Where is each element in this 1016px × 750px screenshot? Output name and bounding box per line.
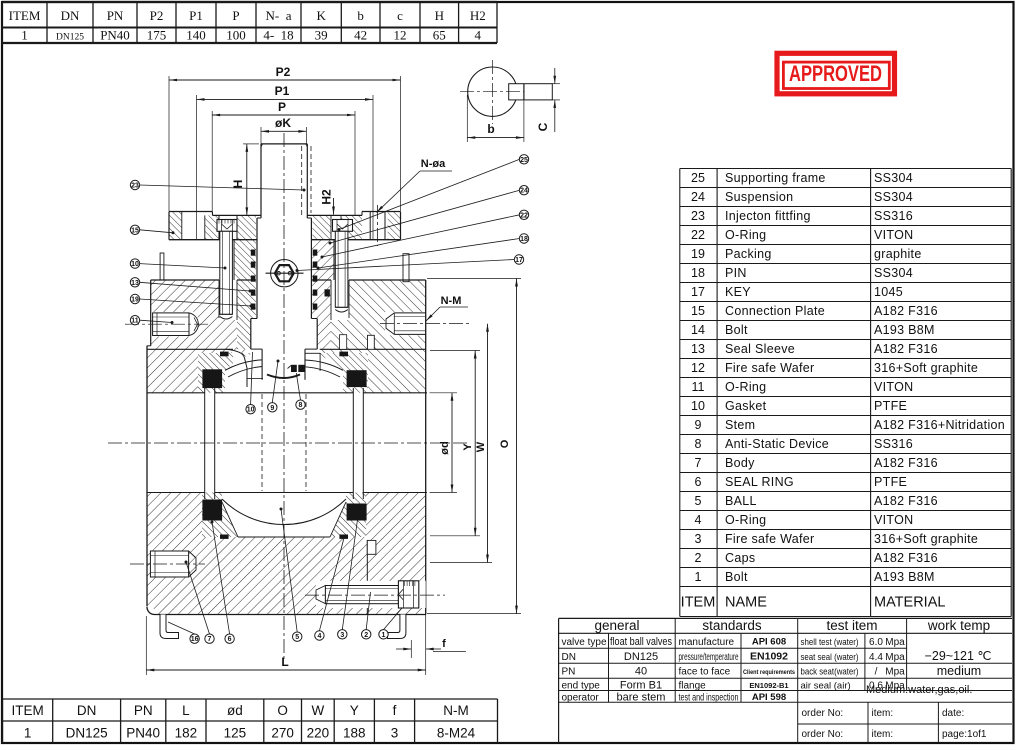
svg-text:Fire safe Wafer: Fire safe Wafer (725, 532, 814, 546)
svg-text:Gasket: Gasket (725, 399, 767, 413)
svg-text:4.4: 4.4 (869, 652, 883, 663)
svg-text:13: 13 (691, 342, 705, 356)
svg-text:air seal (air): air seal (air) (801, 680, 851, 691)
svg-text:140: 140 (186, 28, 206, 43)
svg-text:316+Soft graphite: 316+Soft graphite (874, 532, 978, 546)
svg-text:175: 175 (147, 28, 167, 43)
svg-text:Mpa: Mpa (885, 667, 905, 678)
svg-text:P1: P1 (189, 8, 203, 23)
svg-text:5: 5 (695, 494, 702, 508)
svg-text:MATERIAL: MATERIAL (874, 595, 945, 611)
svg-text:shell test (water): shell test (water) (801, 637, 859, 648)
svg-text:APPROVED: APPROVED (789, 61, 882, 86)
svg-text:Fire safe Wafer: Fire safe Wafer (725, 361, 814, 375)
svg-text:Caps: Caps (725, 551, 755, 565)
svg-text:DN: DN (61, 8, 80, 23)
svg-text:2: 2 (364, 632, 368, 639)
svg-text:100: 100 (226, 28, 246, 43)
svg-text:3: 3 (391, 726, 399, 741)
svg-text:item:: item: (872, 708, 894, 719)
svg-text:22: 22 (520, 212, 528, 219)
svg-text:seat seal (water): seat seal (water) (801, 652, 859, 663)
svg-text:1045: 1045 (874, 285, 903, 299)
svg-text:O: O (277, 703, 288, 718)
svg-text:10: 10 (131, 261, 139, 268)
svg-text:3: 3 (340, 632, 344, 639)
svg-text:medium: medium (937, 664, 981, 678)
svg-text:order No:: order No: (802, 708, 844, 719)
svg-text:W: W (311, 703, 324, 718)
svg-text:ITEM: ITEM (9, 8, 41, 23)
svg-text:A182 F316: A182 F316 (874, 551, 938, 565)
svg-text:−29~121 ℃: −29~121 ℃ (925, 649, 992, 663)
svg-text:N- a: N- a (266, 8, 292, 23)
svg-text:PN40: PN40 (100, 28, 130, 43)
svg-text:SS316: SS316 (874, 209, 913, 223)
svg-text:N-øa: N-øa (421, 158, 446, 170)
svg-text:11: 11 (692, 380, 705, 394)
svg-text:O-Ring: O-Ring (725, 228, 766, 242)
svg-text:Bolt: Bolt (725, 570, 748, 584)
svg-text:270: 270 (271, 726, 294, 741)
svg-text:6: 6 (228, 636, 232, 643)
svg-text:16: 16 (191, 636, 199, 643)
svg-text:c: c (397, 8, 403, 23)
svg-text:8: 8 (299, 402, 303, 409)
svg-text:4- 18: 4- 18 (263, 28, 293, 43)
svg-text:API 608: API 608 (752, 636, 786, 647)
svg-text:flange: flange (679, 680, 707, 691)
svg-text:Stem: Stem (725, 418, 755, 432)
svg-text:4: 4 (475, 28, 482, 43)
svg-text:A182 F316: A182 F316 (874, 494, 938, 508)
svg-text:BALL: BALL (725, 494, 757, 508)
svg-text:back seat(water): back seat(water) (801, 667, 859, 678)
svg-text:1: 1 (24, 726, 32, 741)
svg-text:P: P (232, 8, 239, 23)
svg-text:/: / (875, 667, 878, 678)
svg-text:Bolt: Bolt (725, 323, 748, 337)
svg-text:float ball valves: float ball valves (610, 636, 672, 648)
svg-text:DN125: DN125 (624, 651, 658, 663)
svg-text:PN: PN (562, 667, 576, 678)
svg-text:10: 10 (247, 407, 255, 414)
svg-text:Packing: Packing (725, 247, 772, 261)
svg-text:operator: operator (562, 692, 600, 703)
svg-text:1: 1 (21, 28, 28, 43)
svg-text:8: 8 (695, 437, 702, 451)
svg-text:12: 12 (394, 28, 407, 43)
svg-text:H: H (231, 180, 245, 189)
svg-text:6.0: 6.0 (869, 637, 883, 648)
svg-text:SS316: SS316 (874, 437, 913, 451)
svg-text:Injecton fittfing: Injecton fittfing (725, 209, 811, 223)
svg-text:H2: H2 (320, 189, 334, 205)
svg-text:8-M24: 8-M24 (437, 726, 476, 741)
svg-text:188: 188 (343, 726, 366, 741)
svg-text:N-M: N-M (443, 703, 469, 718)
svg-text:EN1092: EN1092 (750, 650, 788, 662)
svg-text:7: 7 (208, 636, 212, 643)
svg-text:DN: DN (77, 703, 97, 718)
svg-text:VITON: VITON (874, 228, 913, 242)
svg-text:Y: Y (462, 443, 474, 451)
svg-text:12: 12 (691, 361, 705, 375)
svg-text:page:1of1: page:1of1 (942, 729, 987, 740)
svg-text:Form B1: Form B1 (620, 679, 662, 691)
svg-text:API 598: API 598 (752, 692, 786, 703)
svg-text:4: 4 (317, 633, 321, 640)
svg-text:17: 17 (515, 257, 523, 264)
svg-text:Client requirements: Client requirements (743, 669, 795, 676)
svg-text:SS304: SS304 (874, 171, 913, 185)
svg-text:item:: item: (872, 729, 894, 740)
svg-text:work temp: work temp (927, 618, 990, 633)
svg-text:test item: test item (826, 618, 877, 633)
svg-text:Seal Sleeve: Seal Sleeve (725, 342, 795, 356)
svg-text:ød: ød (439, 441, 451, 454)
svg-text:b: b (357, 8, 364, 23)
svg-text:pressure/temperature: pressure/temperature (679, 652, 739, 663)
svg-text:øK: øK (275, 116, 291, 130)
svg-text:test and inspection: test and inspection (679, 692, 739, 703)
svg-text:ITEM: ITEM (681, 595, 716, 611)
svg-text:L: L (281, 655, 288, 669)
svg-text:19: 19 (131, 297, 139, 304)
svg-text:2: 2 (695, 551, 702, 565)
svg-text:23: 23 (691, 209, 705, 223)
svg-text:7: 7 (695, 456, 702, 470)
svg-text:42: 42 (354, 28, 367, 43)
svg-text:25: 25 (520, 157, 528, 164)
svg-text:DN: DN (562, 652, 576, 663)
svg-text:SS304: SS304 (874, 266, 913, 280)
svg-text:standards: standards (702, 618, 762, 633)
svg-text:VITON: VITON (874, 380, 913, 394)
svg-text:5: 5 (295, 634, 299, 641)
svg-text:general: general (594, 618, 639, 633)
svg-text:18: 18 (520, 236, 528, 243)
svg-text:DN125: DN125 (66, 726, 108, 741)
svg-text:L: L (182, 703, 190, 718)
svg-text:manufacture: manufacture (679, 637, 735, 648)
svg-text:40: 40 (635, 666, 647, 678)
svg-text:PTFE: PTFE (874, 475, 907, 489)
svg-text:NAME: NAME (725, 595, 767, 611)
svg-text:P2: P2 (276, 65, 291, 79)
svg-text:19: 19 (691, 247, 705, 261)
svg-text:25: 25 (691, 171, 705, 185)
svg-text:P2: P2 (150, 8, 164, 23)
svg-text:ød: ød (227, 703, 243, 718)
svg-text:18: 18 (691, 266, 705, 280)
svg-text:Mpa: Mpa (885, 637, 905, 648)
svg-text:PN40: PN40 (126, 726, 160, 741)
svg-text:14: 14 (691, 323, 705, 337)
svg-text:17: 17 (691, 285, 705, 299)
svg-text:316+Soft graphite: 316+Soft graphite (874, 361, 978, 375)
svg-text:H2: H2 (470, 8, 486, 23)
svg-text:Y: Y (350, 703, 359, 718)
svg-text:P: P (278, 100, 286, 114)
svg-text:graphite: graphite (874, 247, 922, 261)
svg-text:9: 9 (270, 405, 274, 412)
svg-text:182: 182 (175, 726, 198, 741)
svg-text:order No:: order No: (802, 729, 844, 740)
svg-text:valve type: valve type (562, 637, 607, 648)
svg-text:PIN: PIN (725, 266, 747, 280)
svg-text:f: f (393, 703, 397, 718)
svg-text:face to face: face to face (679, 667, 731, 678)
svg-text:EN1092-B1: EN1092-B1 (749, 681, 788, 690)
svg-text:f: f (442, 638, 446, 650)
svg-text:P1: P1 (275, 84, 290, 98)
svg-text:220: 220 (307, 726, 330, 741)
svg-text:C: C (536, 122, 550, 131)
svg-text:125: 125 (224, 726, 247, 741)
svg-text:4: 4 (695, 513, 702, 527)
svg-text:1: 1 (382, 632, 386, 639)
svg-text:39: 39 (315, 28, 328, 43)
svg-text:A182 F316+Nitridation: A182 F316+Nitridation (874, 418, 1005, 432)
svg-text:H: H (435, 8, 444, 23)
svg-text:SEAL RING: SEAL RING (725, 475, 794, 489)
svg-text:Connection Plate: Connection Plate (725, 304, 825, 318)
svg-text:K: K (316, 8, 326, 23)
svg-text:O-Ring: O-Ring (725, 513, 766, 527)
svg-text:22: 22 (691, 228, 705, 242)
svg-text:PTFE: PTFE (874, 399, 907, 413)
svg-text:23: 23 (131, 183, 139, 190)
svg-text:ITEM: ITEM (11, 703, 43, 718)
svg-text:15: 15 (691, 304, 705, 318)
svg-text:KEY: KEY (725, 285, 751, 299)
svg-text:PN: PN (107, 8, 124, 23)
svg-text:N-M: N-M (441, 295, 462, 307)
svg-text:SS304: SS304 (874, 190, 913, 204)
svg-text:A182 F316: A182 F316 (874, 456, 938, 470)
svg-text:15: 15 (131, 227, 139, 234)
svg-text:13: 13 (131, 280, 139, 287)
svg-text:24: 24 (520, 188, 528, 195)
svg-text:Mpa: Mpa (885, 652, 905, 663)
svg-text:date:: date: (942, 708, 964, 719)
svg-text:b: b (487, 122, 494, 136)
svg-text:end type: end type (562, 680, 601, 691)
svg-text:1: 1 (695, 570, 702, 584)
svg-text:6: 6 (695, 475, 702, 489)
svg-text:Anti-Static Device: Anti-Static Device (725, 437, 829, 451)
svg-text:10: 10 (691, 399, 705, 413)
svg-text:Body: Body (725, 456, 755, 470)
svg-text:A182 F316: A182 F316 (874, 304, 938, 318)
svg-text:bare stem: bare stem (617, 691, 666, 703)
svg-text:O: O (499, 439, 511, 448)
svg-text:DN125: DN125 (56, 33, 84, 43)
svg-text:Medium:water,gas,oil.: Medium:water,gas,oil. (866, 684, 972, 696)
svg-text:24: 24 (691, 190, 705, 204)
svg-text:A193 B8M: A193 B8M (874, 570, 935, 584)
svg-text:PN: PN (134, 703, 153, 718)
svg-text:W: W (475, 441, 487, 452)
svg-text:A193 B8M: A193 B8M (874, 323, 935, 337)
svg-text:VITON: VITON (874, 513, 913, 527)
svg-text:A182 F316: A182 F316 (874, 342, 938, 356)
svg-text:3: 3 (695, 532, 702, 546)
svg-text:Supporting frame: Supporting frame (725, 171, 826, 185)
svg-text:Suspension: Suspension (725, 190, 793, 204)
svg-text:O-Ring: O-Ring (725, 380, 766, 394)
svg-text:11: 11 (131, 318, 139, 325)
svg-text:9: 9 (695, 418, 702, 432)
svg-text:65: 65 (433, 28, 446, 43)
